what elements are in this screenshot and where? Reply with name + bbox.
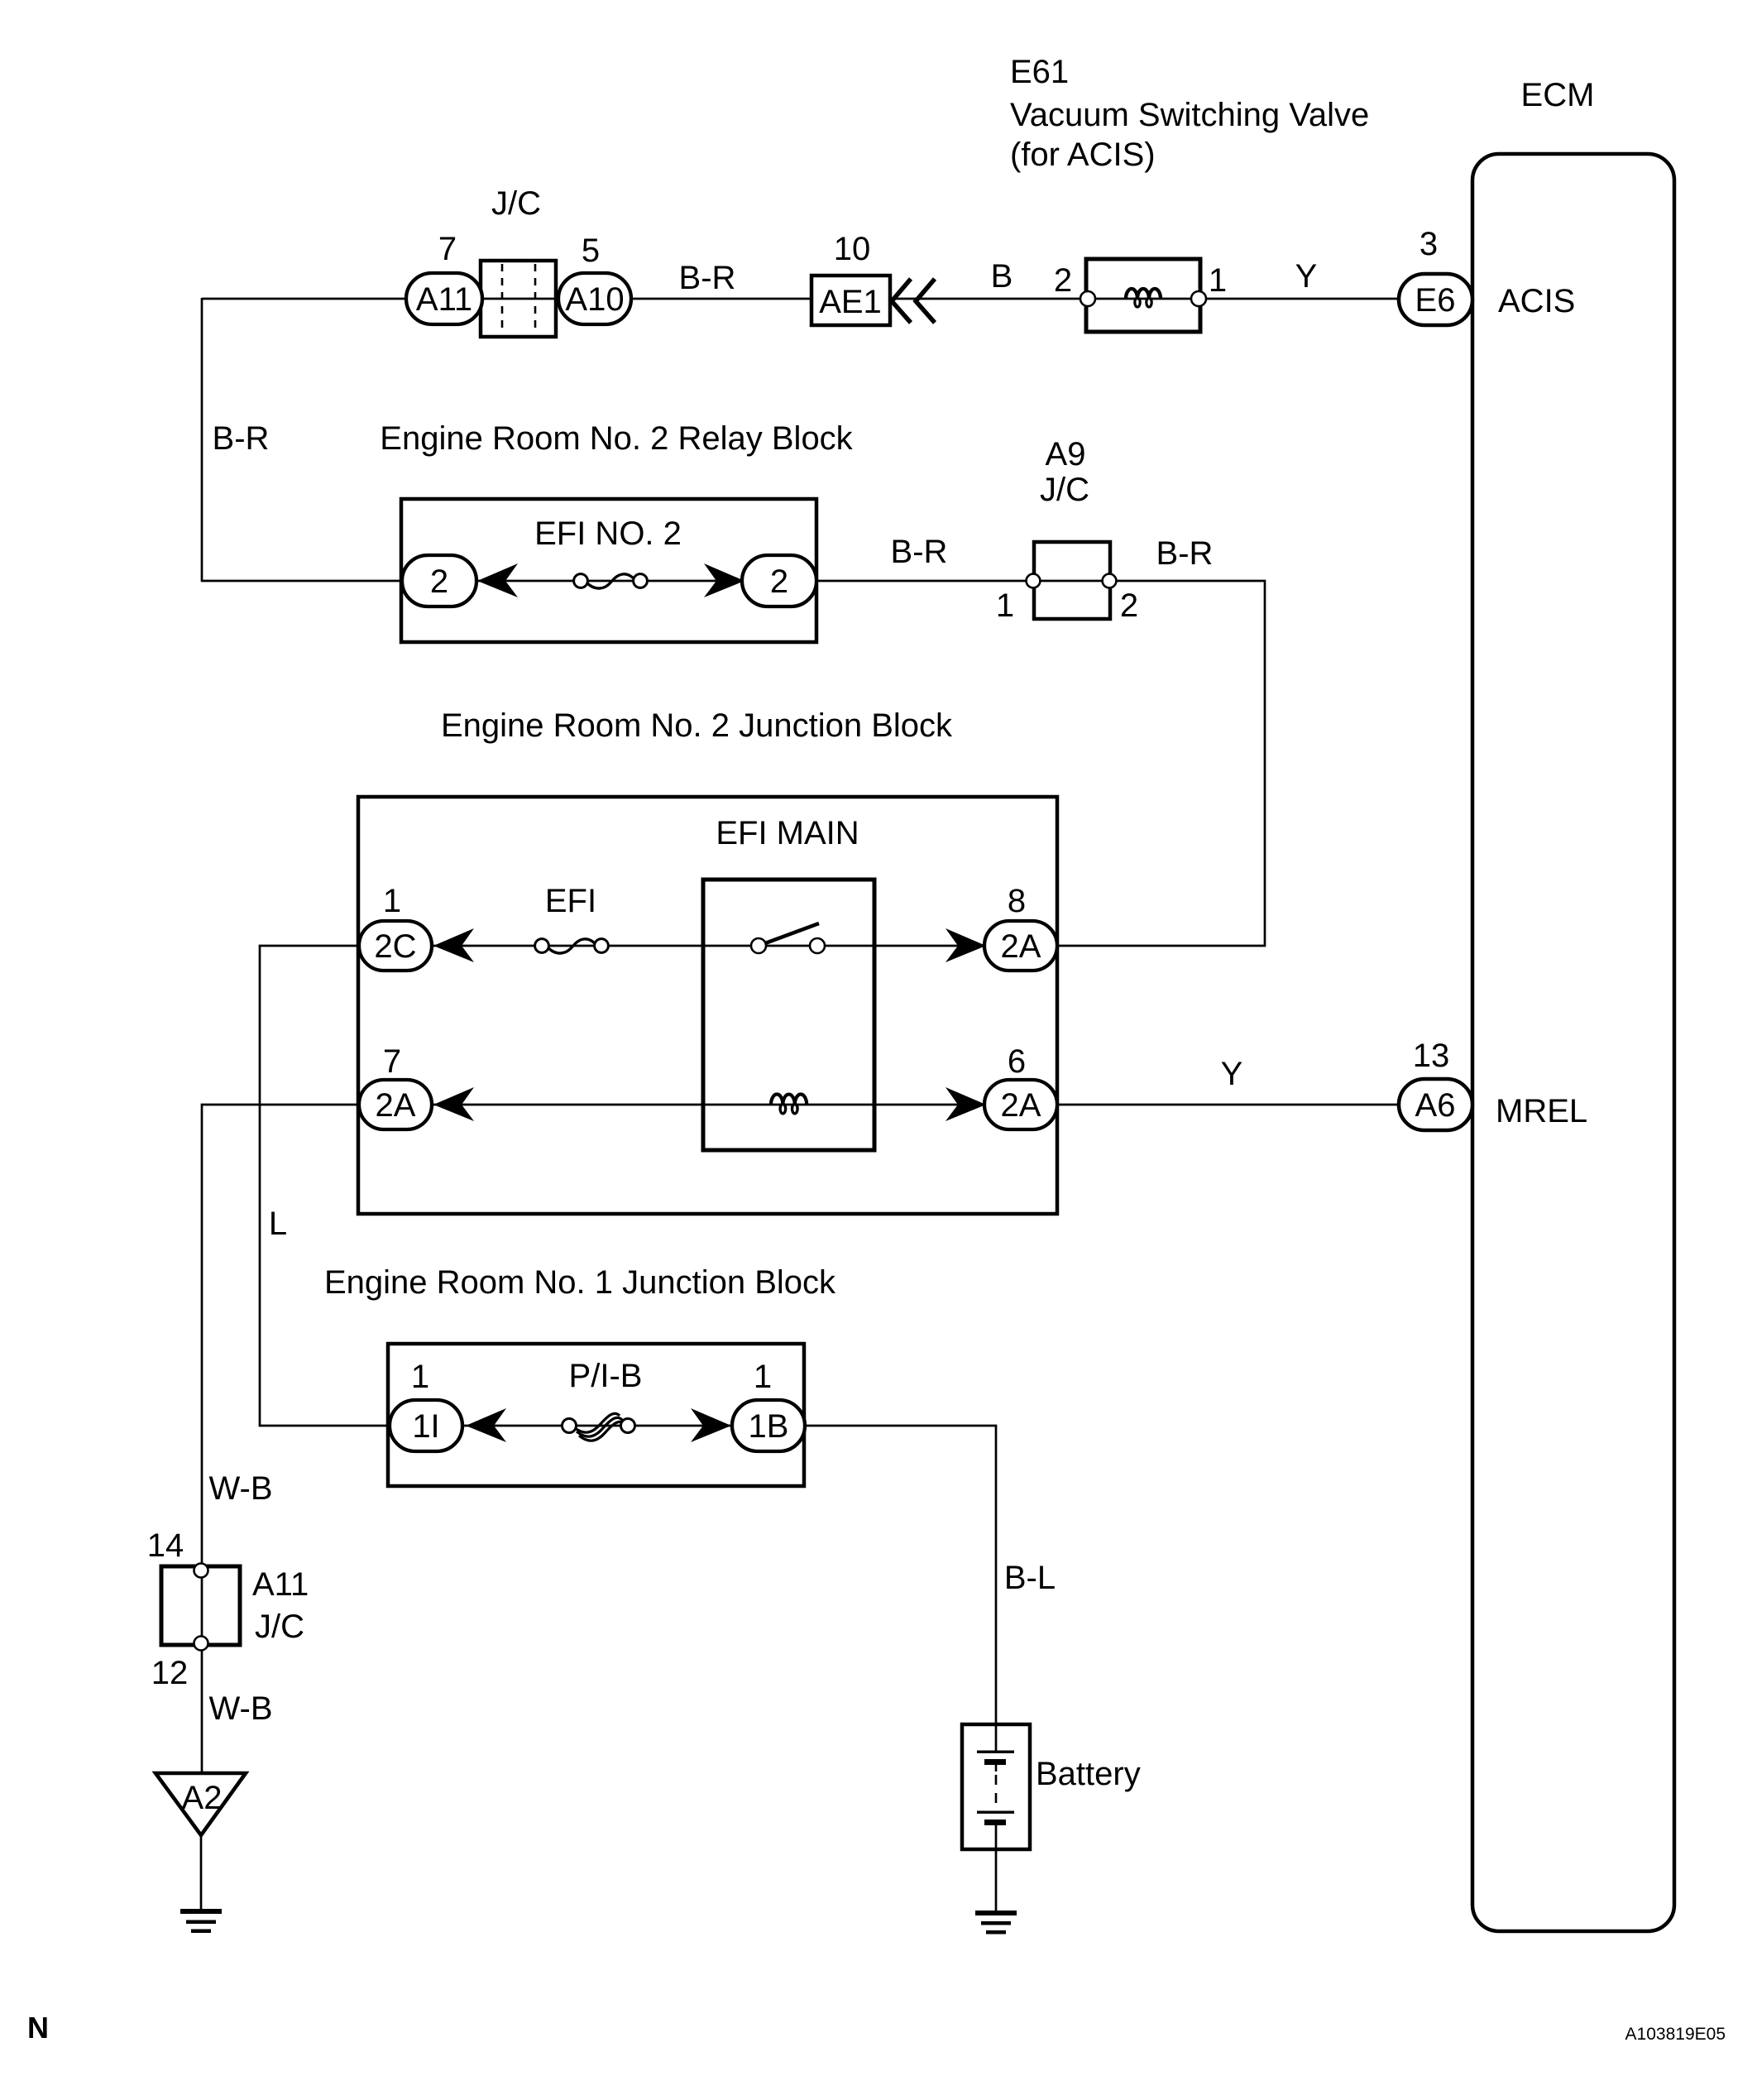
wire Y: EFI MAIN to ECM pin A6 [1059,1104,1400,1106]
svg-text:2: 2 [430,563,448,600]
svg-text:2A: 2A [376,1087,416,1124]
svg-text:A10: A10 [565,281,624,318]
svg-text:EFI MAIN: EFI MAIN [716,815,859,851]
svg-text:B-R: B-R [1156,535,1214,572]
svg-text:B-L: B-L [1004,1560,1056,1596]
svg-text:P/I-B: P/I-B [569,1358,643,1394]
svg-text:A11: A11 [252,1566,309,1603]
svg-text:8: 8 [1008,883,1026,919]
ECM box [1472,154,1674,1931]
svg-text:W-B: W-B [208,1690,272,1727]
connector chevrons [892,279,911,323]
wire inside [426,1425,768,1427]
svg-text:ACIS: ACIS [1498,283,1575,319]
relay EFI MAIN inner box [703,880,874,1150]
ground symbol (left) [180,1909,222,1914]
fuse EFI NO.2 [586,574,634,588]
junction block J/C (top) box [481,261,556,337]
wires inside EFI MAIN [361,945,1056,947]
terminal 2C [359,921,432,971]
relay switch [765,923,819,943]
VSV pin circles [1080,291,1095,306]
svg-text:3: 3 [1419,226,1438,262]
wire B-L: 1B to battery [803,1426,996,1726]
arrow left (EFI NO.2) [477,563,518,597]
svg-text:Battery: Battery [1036,1756,1141,1792]
svg-text:J/C: J/C [255,1609,304,1645]
svg-text:ECM: ECM [1521,77,1595,113]
vacuum switching valve E61 box [1086,259,1200,332]
svg-text:Y: Y [1295,258,1318,295]
terminal 2A (bottom right) [984,1080,1057,1129]
arrows EFI MAIN bottom [433,1087,474,1121]
svg-text:1: 1 [383,883,401,919]
svg-text:Engine Room No. 2 Junction Blo: Engine Room No. 2 Junction Block [441,707,953,744]
svg-text:12: 12 [151,1655,189,1691]
battery box [962,1724,1030,1849]
svg-text:7: 7 [383,1043,401,1080]
ECM pin E6 [1399,274,1472,325]
connector A10 (pin 5) [558,273,631,324]
battery internals [995,1724,998,1752]
svg-text:W-B: W-B [208,1470,272,1507]
junction block P/I-B box [388,1344,804,1486]
arrows EFI MAIN top [433,928,474,962]
terminal 2 (left) [402,555,476,607]
svg-text:2C: 2C [374,928,416,965]
svg-text:Y: Y [1221,1056,1243,1092]
svg-text:7: 7 [438,231,457,267]
svg-text:1: 1 [411,1359,429,1395]
svg-text:13: 13 [1413,1038,1450,1074]
relay coil [771,1095,807,1105]
wire inside EFI NO.2 fuse row [475,580,744,583]
fuse EFI [548,939,596,953]
svg-text:B-R: B-R [213,420,270,457]
wire A10 to AE1 [630,298,813,300]
wire EFI MAIN bottom row [430,1104,986,1106]
svg-text:(for ACIS): (for ACIS) [1010,137,1156,173]
svg-text:E61: E61 [1010,54,1069,90]
wire EFI MAIN top row [430,945,986,947]
ground symbol (battery) [975,1911,1017,1915]
svg-text:EFI NO. 2: EFI NO. 2 [534,515,682,552]
svg-text:B-R: B-R [679,260,736,296]
svg-text:EFI: EFI [545,883,596,919]
svg-text:J/C: J/C [491,185,541,222]
svg-text:A11: A11 [416,281,472,318]
svg-text:Engine Room No. 2 Relay Block: Engine Room No. 2 Relay Block [380,420,853,457]
wire triangle A2 to ground [200,1835,203,1911]
wire 2A pin7 to left vertical W-B [202,1105,361,1775]
VSV coil [1126,289,1161,299]
wire VSV to ECM pin E6 [1204,298,1400,300]
terminal 2A (top right) [984,921,1057,971]
svg-text:A6: A6 [1415,1087,1456,1124]
svg-text:1: 1 [996,587,1014,624]
arrow right (EFI NO.2) [704,563,744,597]
svg-text:MREL: MREL [1496,1093,1587,1129]
ECM pin A6 [1399,1079,1472,1130]
connector AE1 (pin 10) [811,276,890,325]
svg-text:2: 2 [770,563,788,600]
junction connector A9 box [1034,542,1110,619]
svg-text:1I: 1I [412,1408,439,1445]
svg-text:AE1: AE1 [819,284,882,320]
svg-text:J/C: J/C [1040,472,1089,508]
svg-text:A2: A2 [182,1780,223,1816]
wire EFI NO.2 to A9 J/C and corner down [815,581,1265,946]
terminal 1I [390,1400,462,1451]
arrows P/I-B [466,1408,506,1442]
svg-text:Engine Room No. 1 Junction Blo: Engine Room No. 1 Junction Block [324,1264,836,1301]
svg-text:B-R: B-R [891,534,948,570]
svg-text:A9: A9 [1046,436,1086,472]
svg-text:1: 1 [754,1359,772,1395]
wire inside [439,580,779,583]
wire B-R left vertical [201,298,203,582]
svg-text:10: 10 [834,231,871,267]
svg-text:1: 1 [1209,262,1227,299]
fusible link P/I-B [577,1417,622,1436]
connector A11 (pin 7) [406,273,482,324]
wire inside P/I-B row [461,1425,734,1427]
svg-text:14: 14 [147,1527,184,1564]
terminal 1B [732,1400,805,1451]
wire B-R top left horizontal [202,298,409,300]
wire battery to ground [995,1848,998,1911]
svg-text:L: L [269,1206,287,1242]
svg-text:2A: 2A [1001,1087,1041,1124]
svg-text:1B: 1B [749,1408,789,1445]
svg-text:6: 6 [1008,1043,1026,1080]
junction block EFI MAIN box [358,797,1057,1214]
ground triangle A2 [156,1773,246,1835]
junction connector A11 box [161,1566,240,1645]
terminal 2 (right) [742,555,816,607]
svg-text:A103819E05: A103819E05 [1625,2025,1726,2044]
svg-text:Vacuum Switching Valve: Vacuum Switching Valve [1010,97,1369,133]
svg-text:E6: E6 [1415,282,1456,319]
wire AE1 chevrons to VSV [890,298,1082,300]
relay block EFI NO. 2 box [401,499,816,642]
svg-text:5: 5 [582,233,600,269]
svg-text:N: N [27,2011,49,2045]
terminal 2A (bottom left) [359,1080,432,1129]
svg-text:2A: 2A [1001,928,1041,965]
svg-text:B: B [991,258,1013,295]
wire into EFI NO.2 block [201,580,404,583]
svg-text:2: 2 [1054,262,1072,299]
svg-text:2: 2 [1120,587,1138,624]
wire L: 2C to P/I-B 1I [260,946,391,1426]
